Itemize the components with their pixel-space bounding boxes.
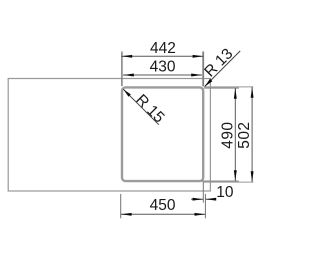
radius R15 arrowhead <box>123 89 131 97</box>
extension line, rim bottom, right (for 502) <box>204 181 253 183</box>
extension line B, cutout right, down <box>204 194 206 218</box>
extension line, cutout left, down (for 450) <box>120 194 122 218</box>
dimension 502 line <box>251 87 253 182</box>
svg-text:430: 430 <box>150 59 176 76</box>
radius R13 leader line <box>205 51 241 87</box>
dimension 450 right arrow <box>195 213 206 216</box>
dimension 10 right arrow <box>205 198 216 201</box>
dimension 502 bottom arrow <box>251 171 254 182</box>
extension line, bowl bottom, right (for 490) <box>202 180 239 182</box>
extension line, rim top, right (for 502) <box>204 86 253 88</box>
dimension 430 line <box>123 74 202 76</box>
bowl rim (thick band, 442/430 outlines merged) <box>122 87 203 181</box>
extension line A, bowl right, down <box>202 182 204 203</box>
dimension 442 line <box>121 55 203 57</box>
svg-text:490: 490 <box>219 121 236 148</box>
svg-text:442: 442 <box>150 40 176 57</box>
extension line, bowl top, right (for 490) <box>204 87 239 89</box>
dimension 10 right tail line <box>205 198 216 200</box>
dimension 490 bottom arrow <box>234 170 237 181</box>
svg-text:10: 10 <box>216 184 234 201</box>
dimension 430 left arrow <box>123 74 134 77</box>
dimension 442 right arrow <box>193 55 204 58</box>
dimension 450 line <box>121 213 206 215</box>
countertop outline <box>8 79 210 192</box>
radius R15 leader line <box>123 89 159 125</box>
svg-text:450: 450 <box>150 197 176 214</box>
dimension 450 left arrow <box>121 213 132 216</box>
dimension 10 left tail line <box>191 198 203 200</box>
dimension 10 left arrow <box>193 198 204 201</box>
dimension 490 top arrow <box>234 88 237 99</box>
radius R13 arrowhead <box>205 79 213 87</box>
svg-text:502: 502 <box>236 121 253 148</box>
dimension 490 line <box>234 88 236 181</box>
dimension 502 top arrow <box>251 87 254 98</box>
dimension 430 right arrow <box>191 74 202 77</box>
extension line, bowl left, up <box>121 52 123 87</box>
dimension 442 left arrow <box>121 55 132 58</box>
extension line, bowl right, up <box>202 52 204 87</box>
